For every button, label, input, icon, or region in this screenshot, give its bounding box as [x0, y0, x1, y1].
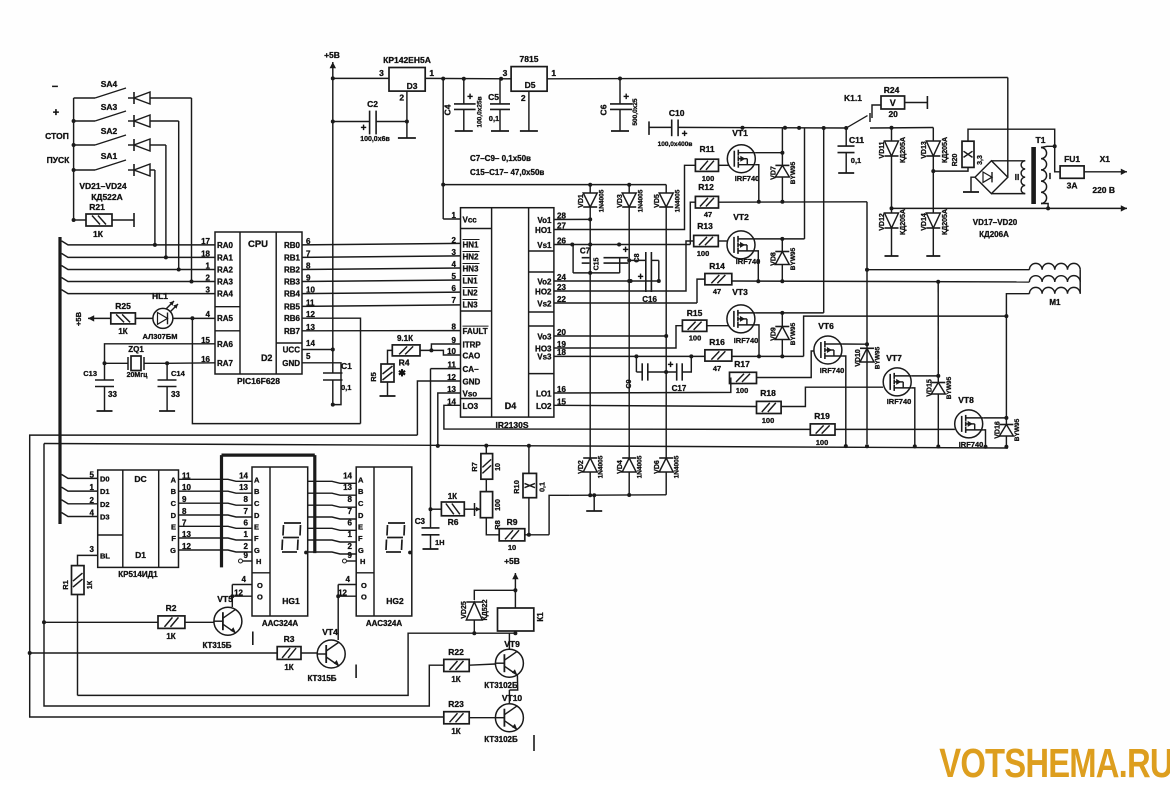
- svg-text:1К: 1К: [118, 327, 127, 336]
- svg-text:D3: D3: [100, 513, 110, 522]
- svg-text:D: D: [254, 511, 260, 520]
- svg-text:RB1: RB1: [284, 253, 301, 262]
- svg-text:КД522: КД522: [482, 599, 489, 620]
- svg-text:HN3: HN3: [463, 265, 480, 274]
- motor M1 winding 1: [867, 263, 1080, 269]
- D4 pin ITRP: [452, 336, 482, 350]
- svg-text:VT3: VT3: [732, 287, 748, 297]
- D1 pin C: [171, 495, 187, 508]
- svg-text:1N4005: 1N4005: [598, 455, 605, 478]
- bridge rectifier VD17-VD20: [975, 161, 1008, 194]
- resistor R22: [444, 647, 469, 684]
- D4 pin LN3: [452, 296, 479, 310]
- svg-text:D2: D2: [261, 353, 273, 363]
- ground for C6: [611, 130, 629, 132]
- D1 pin A: [171, 471, 191, 484]
- svg-text:VT8: VT8: [958, 395, 974, 405]
- svg-text:33: 33: [108, 390, 117, 399]
- svg-text:II: II: [1015, 173, 1019, 182]
- wire bus to CPU RA pin: [62, 278, 216, 282]
- D1 pin G: [170, 542, 191, 555]
- svg-text:+: +: [361, 123, 367, 134]
- D4 pin HN1: [452, 236, 480, 250]
- wire segment to HG1: [179, 479, 253, 481]
- svg-text:R20: R20: [952, 153, 959, 166]
- transistor VT7 IRF740: [883, 353, 912, 406]
- svg-text:A: A: [358, 475, 364, 484]
- svg-text:D1: D1: [100, 487, 110, 496]
- diode VD10: [855, 346, 882, 369]
- svg-text:Vcc: Vcc: [463, 216, 478, 225]
- svg-text:C17: C17: [672, 384, 687, 393]
- note C7-C9 values: [470, 154, 531, 163]
- svg-text:КТ315Б: КТ315Б: [307, 674, 336, 683]
- svg-text:B: B: [171, 487, 177, 496]
- wire RB to HN/LN: [302, 243, 461, 245]
- wire HO1 riser to R11: [554, 165, 696, 229]
- svg-text:✱: ✱: [398, 368, 406, 378]
- svg-text:VD11: VD11: [879, 141, 886, 158]
- D1 pin B: [171, 483, 192, 496]
- power +5V arrow bottom: [504, 556, 520, 593]
- D1 pin D0: [90, 470, 110, 483]
- svg-text:3: 3: [379, 68, 384, 78]
- svg-text:G: G: [254, 546, 260, 555]
- svg-text:VT2: VT2: [733, 212, 749, 222]
- transistor VT6 IRF740: [814, 321, 844, 375]
- svg-text:Vs3: Vs3: [537, 353, 552, 362]
- wire R4 to CAO and ITRP: [420, 344, 461, 355]
- wire LO1 to R17: [554, 378, 731, 394]
- wire +5V to D3 pin3: [333, 68, 389, 78]
- svg-text:КД205А: КД205А: [942, 137, 949, 163]
- ground for C11: [838, 172, 854, 174]
- junction on switch bus: [72, 119, 76, 123]
- svg-text:КТ3102Б: КТ3102Б: [484, 681, 518, 690]
- svg-text:R16: R16: [709, 337, 725, 347]
- svg-text:D2: D2: [100, 500, 110, 509]
- svg-text:14: 14: [306, 339, 315, 348]
- svg-text:LN3: LN3: [463, 301, 479, 310]
- svg-text:PIC16F628: PIC16F628: [237, 376, 280, 386]
- svg-text:1К: 1К: [87, 580, 94, 589]
- svg-text:100: 100: [689, 334, 702, 343]
- resistor R17: [730, 359, 757, 395]
- HG2 pin E: [348, 518, 363, 531]
- wire R14 left to Vs2: [697, 279, 705, 303]
- HG1 pin B: [239, 483, 260, 496]
- diode VD4: [617, 455, 644, 495]
- resistor R20: [952, 141, 984, 167]
- svg-text:R15: R15: [687, 308, 703, 318]
- svg-text:1: 1: [348, 530, 353, 539]
- svg-text:2: 2: [399, 93, 404, 103]
- junction on switch bus: [72, 168, 76, 172]
- svg-text:A: A: [254, 475, 260, 484]
- svg-text:C: C: [171, 499, 177, 508]
- wire 310V bus after contact: [870, 126, 933, 130]
- resistor R2: [44, 603, 185, 641]
- capacitor C9: [626, 356, 648, 388]
- wire RA6 to crystal: [105, 344, 216, 364]
- ground for D5: [520, 130, 538, 132]
- resistor R7: [470, 446, 502, 480]
- D4 pin Vo3: [537, 328, 566, 342]
- svg-text:18: 18: [557, 348, 566, 357]
- svg-text:13: 13: [239, 483, 248, 492]
- svg-text:RB6: RB6: [284, 314, 301, 323]
- relay coil K1: [498, 608, 546, 631]
- wire 310V bus: [678, 126, 848, 130]
- svg-text:5: 5: [452, 272, 457, 281]
- svg-text:C: C: [358, 499, 364, 508]
- diode VD7: [770, 128, 797, 204]
- CPU pin UCC: [283, 339, 316, 355]
- wire loop L1 to RA5: [192, 318, 360, 423]
- wire R20 bottom to VD13-VD14 node: [933, 167, 968, 171]
- svg-text:VT10: VT10: [502, 693, 523, 703]
- svg-text:O: O: [361, 581, 367, 590]
- svg-text:20: 20: [888, 109, 898, 119]
- svg-text:R4: R4: [399, 358, 410, 368]
- svg-text:V: V: [890, 98, 896, 108]
- svg-text:VD15: VD15: [926, 379, 933, 397]
- svg-text:VT7: VT7: [886, 353, 902, 363]
- HG1 pin D: [244, 507, 260, 520]
- wire VT8 source to sense: [983, 430, 987, 449]
- svg-text:C13: C13: [83, 369, 97, 378]
- transistor VT2 IRF740: [718, 212, 760, 266]
- diode VD25: [461, 599, 489, 635]
- svg-text:RA3: RA3: [217, 278, 234, 287]
- svg-text:C2: C2: [367, 99, 378, 109]
- resistor R14: [705, 261, 732, 296]
- svg-text:RB0: RB0: [284, 241, 301, 250]
- VT10 emitter terminal: [533, 735, 535, 751]
- resistor R16: [705, 337, 732, 373]
- svg-text:0,1: 0,1: [489, 114, 499, 123]
- svg-text:C7–C9– 0,1х50в: C7–C9– 0,1х50в: [470, 154, 531, 163]
- wire VD1 vertical down: [588, 207, 592, 455]
- wire bus to CPU RA pin: [62, 290, 216, 294]
- svg-text:R19: R19: [814, 411, 830, 421]
- ground for D3/C2: [398, 137, 416, 139]
- diode VD15: [926, 376, 953, 448]
- HG2 pin F: [348, 530, 363, 543]
- svg-text:VT6: VT6: [818, 321, 834, 331]
- svg-text:FAULT: FAULT: [463, 327, 488, 336]
- capacitor C14: [158, 363, 186, 411]
- svg-text:VD4: VD4: [617, 460, 624, 474]
- transistor VT9 KT3102B: [469, 639, 523, 690]
- svg-text:R17: R17: [734, 359, 750, 369]
- svg-text:IRF740: IRF740: [820, 366, 845, 375]
- fuse FU1: [1060, 154, 1084, 191]
- label minus input: [52, 81, 58, 93]
- ground bar VD14: [926, 255, 940, 257]
- svg-text:VD2: VD2: [578, 460, 585, 474]
- wire VD2-VD6 anode bus: [570, 493, 666, 497]
- svg-text:7815: 7815: [520, 54, 539, 64]
- wire R6 to R8 wiper: [464, 503, 480, 516]
- svg-text:C3: C3: [415, 517, 426, 526]
- svg-text:ААС324А: ААС324А: [262, 619, 298, 628]
- wire LO3 down to gate line: [444, 405, 810, 429]
- wire T1 to FU1: [1055, 146, 1060, 172]
- svg-text:К1: К1: [536, 612, 545, 622]
- resistor R25 with arrow: [88, 301, 135, 336]
- CPU pin RA7: [201, 355, 233, 368]
- svg-text:1Н: 1Н: [435, 538, 445, 547]
- D4 pin Vso: [447, 385, 477, 399]
- svg-text:R2: R2: [166, 603, 177, 613]
- svg-text:RA1: RA1: [217, 253, 234, 262]
- svg-text:−: −: [52, 81, 58, 93]
- junction on switch bus: [72, 218, 76, 222]
- wire SA4 to CPU column: [190, 98, 194, 284]
- svg-text:100: 100: [697, 249, 710, 258]
- diode VD2: [578, 455, 605, 495]
- HG1 pin C: [244, 495, 260, 508]
- wire VD3 vertical down: [627, 207, 631, 455]
- svg-text:ZQ1: ZQ1: [128, 345, 144, 354]
- svg-text:2: 2: [452, 236, 457, 245]
- wire RB to HN/LN: [302, 256, 461, 258]
- svg-text:4: 4: [452, 260, 457, 269]
- svg-text:I: I: [1049, 172, 1051, 181]
- svg-text:+: +: [623, 245, 629, 256]
- wire R21 to terminal: [112, 213, 134, 227]
- power +5V arrow top: [324, 50, 340, 78]
- switch SA2: [74, 126, 126, 145]
- svg-text:0,1: 0,1: [851, 156, 861, 165]
- wire Vo1: [554, 218, 590, 220]
- switch SA1: [74, 151, 126, 170]
- diode VD2x for SA4: [128, 92, 192, 104]
- svg-text:E: E: [254, 522, 259, 531]
- svg-text:D1: D1: [135, 550, 146, 560]
- svg-text:1N4005: 1N4005: [675, 189, 682, 212]
- svg-text:ITRP: ITRP: [463, 341, 482, 350]
- driver D4 IR2130 box: [461, 208, 554, 430]
- label STOP input: [45, 131, 69, 141]
- svg-text:RB5: RB5: [284, 302, 301, 311]
- wire R17 to VT6 gate: [757, 351, 815, 378]
- svg-text:Vo2: Vo2: [537, 278, 552, 287]
- svg-text:R14: R14: [709, 261, 725, 271]
- svg-text:9: 9: [348, 551, 353, 560]
- svg-text:K1.1: K1.1: [844, 93, 862, 103]
- svg-text:5: 5: [306, 352, 311, 361]
- wire ITRP from left: [0, 0, 1, 1]
- svg-text:RA6: RA6: [217, 340, 234, 349]
- diode VD9: [770, 313, 797, 359]
- svg-text:47: 47: [713, 287, 721, 296]
- svg-text:SA1: SA1: [101, 151, 118, 161]
- wire frame L2 ITRIP loop: [28, 435, 444, 717]
- HG2 pin A: [343, 471, 364, 484]
- wire diode anode bus +15V: [443, 183, 666, 187]
- wire segment to HG2: [308, 517, 357, 519]
- CPU pin RB2: [284, 262, 311, 275]
- label PUSK input: [47, 155, 71, 165]
- capacitor C5: [488, 79, 510, 131]
- transistor VT1 IRF740: [719, 128, 760, 183]
- svg-text:E: E: [171, 522, 176, 531]
- voltage regulator D3 KR142EN5A: [383, 55, 431, 103]
- svg-text:1N4005: 1N4005: [637, 455, 644, 478]
- wire segment to HG2: [308, 481, 357, 483]
- svg-text:IRF740: IRF740: [735, 174, 760, 183]
- D1 pin D3: [90, 509, 110, 522]
- svg-text:IRF740: IRF740: [887, 397, 912, 406]
- svg-text:VD14: VD14: [921, 213, 928, 231]
- D4 pin LN2: [452, 284, 479, 298]
- CPU pin RA4: [206, 286, 234, 299]
- svg-text:VT1: VT1: [732, 128, 748, 138]
- wire phase C from R16: [732, 314, 1009, 356]
- transistor VT5 KT315B: [185, 594, 242, 650]
- svg-text:CAO: CAO: [463, 352, 481, 361]
- svg-text:C14: C14: [171, 369, 186, 378]
- svg-text:BYW95: BYW95: [875, 346, 882, 369]
- svg-text:UCC: UCC: [283, 346, 301, 355]
- svg-text:R5: R5: [369, 372, 378, 382]
- CPU pin RB6: [284, 310, 315, 323]
- svg-text:500,0х25: 500,0х25: [632, 98, 639, 125]
- D1 pin BL: [90, 545, 111, 561]
- svg-text:DC: DC: [134, 474, 146, 484]
- capacitor C13: [83, 363, 117, 411]
- decoder D1 KR514ID1 box: [98, 470, 179, 579]
- svg-text:1N4005: 1N4005: [599, 189, 606, 212]
- label VD21-VD24: [79, 181, 127, 191]
- svg-text:C16: C16: [642, 295, 657, 304]
- label +5V at R25: [74, 311, 83, 326]
- svg-text:100: 100: [736, 386, 749, 395]
- svg-text:G: G: [170, 546, 176, 555]
- wire segment to HG1: [179, 550, 253, 552]
- HG1 pin A: [239, 471, 260, 484]
- svg-text:C10: C10: [669, 108, 685, 118]
- diode VD8: [770, 239, 797, 283]
- wire bus to CPU RA pin: [62, 253, 216, 257]
- wire R18 to VT7 gate: [781, 387, 883, 406]
- svg-text:КТ315Б: КТ315Б: [202, 641, 231, 650]
- HG2 pin H: [343, 551, 366, 566]
- svg-text:КР142ЕН5А: КР142ЕН5А: [383, 55, 431, 65]
- wire Vs1 line: [554, 243, 690, 247]
- wire GND pin route: [302, 363, 341, 405]
- svg-text:RB4: RB4: [284, 290, 301, 299]
- HG1 pin G: [244, 542, 260, 555]
- CPU pin RA0: [201, 237, 233, 250]
- svg-text:BYW95: BYW95: [946, 376, 953, 399]
- svg-text:BYW95: BYW95: [790, 322, 797, 345]
- wire bus to D1 input: [62, 500, 98, 504]
- svg-text:D0: D0: [100, 474, 110, 483]
- svg-text:R13: R13: [697, 221, 713, 231]
- resistor R12: [695, 182, 718, 219]
- resistor R9: [499, 517, 525, 552]
- crystal ZQ1 20MHz: [105, 345, 168, 379]
- CPU pin GND: [282, 352, 311, 368]
- svg-text:10: 10: [495, 463, 502, 471]
- svg-text:+: +: [467, 92, 473, 103]
- svg-text:VD5: VD5: [654, 194, 661, 208]
- VT4 emitter terminal: [355, 665, 357, 679]
- D4 pin LO3: [447, 397, 479, 411]
- wire D5 pin2 to ground: [528, 91, 530, 131]
- HG1 pin F: [244, 530, 259, 543]
- HG1 pin E: [244, 518, 259, 531]
- svg-text:B: B: [358, 487, 364, 496]
- transistor VT8 IRF740: [835, 395, 983, 449]
- wire FU1 to X1 arrow: [1084, 154, 1127, 175]
- wire VT5 collector: [0, 0, 1, 1]
- svg-text:КД205А: КД205А: [900, 209, 907, 235]
- svg-text:+: +: [668, 360, 674, 371]
- svg-text:VD21–VD24: VD21–VD24: [79, 181, 127, 191]
- svg-text:220 В: 220 В: [1092, 185, 1115, 195]
- wire R5 to ground: [387, 382, 389, 396]
- svg-text:VD3: VD3: [617, 194, 624, 208]
- wire RB7 to FAULT: [302, 330, 461, 332]
- svg-text:IRF740: IRF740: [736, 257, 761, 266]
- transistor VT3 IRF740: [707, 287, 759, 345]
- D1 pin F: [171, 530, 191, 543]
- diode VD2x for SA2: [128, 139, 166, 151]
- wire SA2 to CPU column: [164, 145, 168, 259]
- wire switch bus vertical: [73, 98, 75, 220]
- svg-text:X1: X1: [1100, 154, 1111, 164]
- CPU pin RA3: [206, 274, 234, 287]
- svg-text:C15: C15: [594, 257, 601, 270]
- svg-text:КР514ИД1: КР514ИД1: [118, 570, 158, 579]
- svg-text:GND: GND: [463, 378, 481, 387]
- ground for C13: [97, 410, 113, 412]
- capacitor C6: [599, 79, 640, 132]
- svg-text:100: 100: [495, 499, 502, 511]
- svg-text:КД205А: КД205А: [900, 137, 907, 163]
- wire bus to CPU RA pin: [62, 241, 216, 245]
- svg-text:+5В: +5В: [324, 50, 340, 60]
- wire segment to HG2: [308, 552, 357, 554]
- indicator HG2 ALS324A box: [356, 467, 412, 628]
- label KD522A: [91, 192, 123, 202]
- wire R12 left to Vs1: [690, 202, 695, 244]
- ground for C14: [159, 410, 175, 412]
- HG2 pin G: [348, 542, 364, 555]
- wire UCC pin to C1: [302, 348, 335, 352]
- capacitor C15: [594, 245, 629, 273]
- transistor VT10 KT3102B: [484, 693, 523, 744]
- wire K1 drive loop: [78, 633, 475, 695]
- svg-text:Vs1: Vs1: [537, 241, 552, 250]
- CPU pin RB1: [284, 249, 311, 262]
- capacitor C16: [638, 272, 658, 304]
- wire R23 to VT10: [469, 717, 495, 719]
- svg-text:1К: 1К: [284, 663, 293, 672]
- CPU pin RB3: [284, 274, 311, 287]
- svg-text:VD13: VD13: [921, 141, 928, 159]
- wire segment to HG2: [308, 528, 357, 530]
- capacitor C7: [573, 245, 620, 275]
- svg-text:ААС324А: ААС324А: [366, 619, 402, 628]
- label VD17-VD20: [973, 218, 1018, 227]
- microcontroller D2 PIC16F628 box: [215, 232, 302, 386]
- svg-text:LO2: LO2: [536, 402, 552, 411]
